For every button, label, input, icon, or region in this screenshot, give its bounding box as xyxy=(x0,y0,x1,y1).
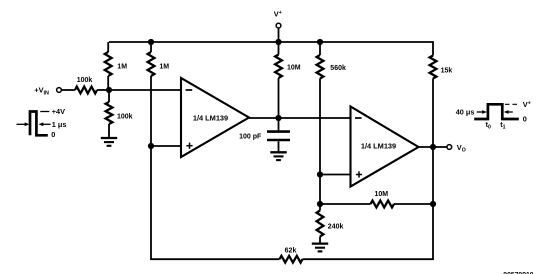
junction: rail / 560k xyxy=(317,39,323,45)
wire: resistor 10M to node C (U1 output) xyxy=(278,78,280,118)
ground (below 100 pF) xyxy=(270,151,286,153)
wire: node B to U1 non-inverting input xyxy=(151,145,181,147)
junction: node D (U2 non-inverting input) xyxy=(317,171,323,177)
capacitor 100 pF xyxy=(267,132,290,140)
op-amp U2 (1/4 LM139) xyxy=(351,107,419,187)
junction: node A (inverting input node) xyxy=(106,87,112,93)
wire: rail right end down to resistor 15k xyxy=(432,41,434,55)
resistor 100k (input) xyxy=(75,87,97,94)
wire: node F to resistor 10M (feedback) xyxy=(320,203,371,205)
resistor 10M (vertical) xyxy=(275,55,282,79)
resistor 10M (feedback) xyxy=(371,201,395,208)
annotation arrow (input pulse right) xyxy=(39,122,51,126)
svg-text:V+: V+ xyxy=(274,9,282,18)
svg-text:+VIN: +VIN xyxy=(34,86,49,97)
junction: V+ on rail xyxy=(275,39,281,45)
junction: node F (240k / 10M feedback) xyxy=(317,201,323,207)
wire: rail to resistor 1M (left) xyxy=(107,42,109,52)
svg-text:1M: 1M xyxy=(117,63,127,70)
svg-text:V+: V+ xyxy=(523,100,531,109)
terminal +VIN xyxy=(57,88,62,93)
wire: resistor 240k to ground xyxy=(319,237,321,244)
junction: node B (U1 non-inverting input) xyxy=(148,143,154,149)
svg-text:0: 0 xyxy=(523,115,527,124)
svg-text:0: 0 xyxy=(51,130,55,139)
svg-text:10M: 10M xyxy=(374,191,388,198)
svg-text:10M: 10M xyxy=(287,64,301,71)
svg-text:560k: 560k xyxy=(330,65,346,72)
svg-text:100k: 100k xyxy=(77,77,93,84)
junction: node C (U1 output) xyxy=(275,115,281,121)
junction: node E (U2 output) xyxy=(430,144,436,150)
resistor 560k xyxy=(317,55,324,79)
svg-text:1 μs: 1 μs xyxy=(52,120,67,129)
wire: node D to U2 non-inverting input xyxy=(320,174,351,176)
resistor 1M (right) xyxy=(148,52,155,76)
svg-text:1M: 1M xyxy=(159,63,169,70)
wire: rail to resistor 1M (right) xyxy=(150,42,152,52)
wire: node C to capacitor 100 pF xyxy=(278,118,280,130)
wire: rail to resistor 560k xyxy=(319,42,321,55)
annotation arrow (output pulse left) xyxy=(477,110,487,114)
wire: U2 output to VO terminal xyxy=(419,146,447,148)
svg-text:15k: 15k xyxy=(441,68,453,75)
ground (below 100k) xyxy=(101,137,117,139)
annotation dashed line (V+ level) xyxy=(505,103,520,105)
wire: node F to resistor 240k xyxy=(319,204,321,211)
wire: resistor 15k down to node E (U2 output) xyxy=(432,79,434,148)
svg-text:+4V: +4V xyxy=(52,107,65,116)
svg-text:62k: 62k xyxy=(285,248,297,255)
wire: node E down to node G xyxy=(432,147,434,204)
wire: node B down to bottom feedback run xyxy=(151,146,280,259)
wire: node A to op-amp U1 inverting input xyxy=(109,89,181,91)
ground (below 240k) xyxy=(312,242,328,244)
svg-text:1/4 LM139: 1/4 LM139 xyxy=(193,113,228,122)
wire: resistor 1M (right) down to node B xyxy=(150,76,152,146)
junction: node G (output column / feedback) xyxy=(430,201,436,207)
wire: resistor 1M (left) to node A xyxy=(107,76,109,88)
resistor 240k xyxy=(317,211,324,237)
wire: U1 output to U2 inverting input xyxy=(249,117,351,119)
svg-text:240k: 240k xyxy=(328,223,344,230)
wire: capacitor to ground xyxy=(278,141,280,152)
wire: V+ supply rail xyxy=(109,41,433,43)
resistor 15k xyxy=(430,56,437,79)
resistor 100k (lower) xyxy=(106,102,113,124)
output pulse waveform xyxy=(474,104,519,119)
svg-text:40 μs: 40 μs xyxy=(456,107,475,116)
wire: resistor 10M (feedback) to node G xyxy=(394,203,433,205)
wire: rail to resistor 10M (vertical) xyxy=(278,42,280,55)
annotation arrow (input pulse left) xyxy=(17,122,30,126)
wire: node G down / bottom run to 62k xyxy=(303,204,434,259)
wire: node A to resistor 100k (lower) xyxy=(108,90,110,102)
svg-text:100k: 100k xyxy=(117,114,133,121)
junction: rail / 1M (right) xyxy=(148,39,154,45)
svg-text:VO: VO xyxy=(457,143,466,154)
svg-text:t1: t1 xyxy=(500,120,505,131)
resistor 62k xyxy=(280,256,303,263)
svg-text:t0: t0 xyxy=(486,120,491,131)
annotation dash (+4V level) xyxy=(40,111,49,113)
wire: node D down to node F xyxy=(319,175,321,205)
annotation arrow (output pulse right) xyxy=(504,110,513,114)
svg-text:100 pF: 100 pF xyxy=(239,133,262,140)
op-amp U1 (1/4 LM139) xyxy=(181,78,249,157)
svg-text:1/4 LM139: 1/4 LM139 xyxy=(361,141,396,150)
wire: resistor 560k down to node D (U2 non-inverting input) xyxy=(319,79,321,175)
wire: VIN terminal to R 100k xyxy=(62,89,75,91)
resistor 1M (left) xyxy=(105,52,112,76)
input pulse waveform xyxy=(30,112,48,136)
wire: R 100k to node A xyxy=(97,89,109,91)
terminal VO xyxy=(447,145,452,150)
wire: resistor 100k (lower) to ground xyxy=(108,124,110,138)
terminal V+ xyxy=(276,23,281,42)
